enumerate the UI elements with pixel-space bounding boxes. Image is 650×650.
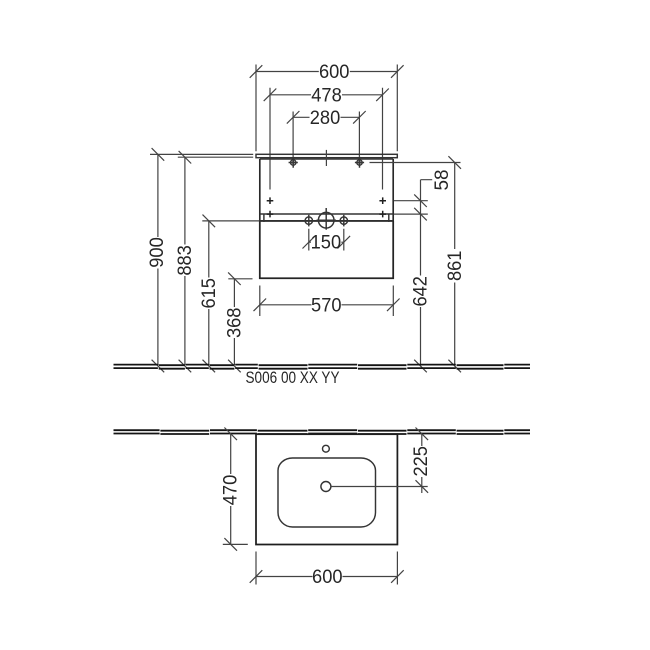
dimension 478: extension lines (270, 88, 383, 190)
extension line upper plus to 58 (394, 200, 428, 202)
svg-text:642: 642 (411, 276, 432, 307)
dimension 883: dimension line with ticks (179, 151, 192, 372)
dimension 570: extension lines (260, 286, 394, 317)
faucet hole (321, 482, 331, 492)
cabinet carcass top edge (260, 158, 393, 160)
washbasin top outline (256, 434, 397, 544)
svg-text:280: 280 (310, 108, 341, 129)
svg-text:150: 150 (311, 233, 342, 254)
svg-text:225: 225 (411, 446, 432, 477)
drawer rail end caps (264, 214, 389, 222)
dimension 280: dimension line with ticks (287, 111, 366, 124)
svg-text:600: 600 (312, 567, 343, 588)
siphon big circle (317, 208, 337, 230)
dimension 861: dimension line with ticks (448, 156, 461, 372)
drawer rail bottom line (260, 220, 393, 222)
drilling plus mark lower-right (379, 211, 386, 218)
cabinet drawer box (260, 221, 393, 278)
screw symbol right (355, 157, 364, 168)
svg-text:570: 570 (311, 295, 342, 316)
svg-text:615: 615 (199, 278, 220, 309)
dimension 58: leader and ticks (414, 180, 432, 221)
dimension 225: dimension line with ticks (416, 428, 429, 494)
cabinet center mark top (325, 150, 327, 166)
drawer rail top line (260, 213, 393, 215)
countertop panel (256, 154, 397, 157)
dimension 600 top: dimension line with ticks (250, 65, 404, 78)
dimension 150: dimension line with ticks (303, 236, 351, 249)
extension line panel top to 900 (150, 153, 253, 155)
extension line panel bottom to 883 (178, 156, 253, 158)
svg-text:S006 00 XX YY: S006 00 XX YY (246, 369, 340, 387)
dimension 570: dimension line with ticks (254, 299, 400, 312)
basin bowl (278, 458, 376, 527)
svg-text:470: 470 (221, 475, 242, 506)
dimension 600 bottom: dimension line with ticks (250, 570, 404, 583)
dimension 470: dimension line with ticks (224, 428, 237, 551)
drain small circle left (305, 215, 312, 227)
extension line screws to 861 (370, 162, 461, 164)
svg-text:478: 478 (311, 85, 342, 106)
dimension 478: dimension line with ticks (264, 89, 389, 102)
dimension 600 top: extension lines (256, 65, 397, 152)
svg-text:861: 861 (445, 251, 466, 282)
dimension 615: dimension line with ticks (203, 215, 216, 373)
extension line basin bottom to 470 (223, 543, 248, 545)
svg-text:900: 900 (147, 237, 168, 268)
svg-text:883: 883 (175, 245, 196, 276)
dimension 900: dimension line with ticks (152, 148, 165, 372)
svg-text:368: 368 (225, 308, 246, 339)
wall line (top view) (114, 430, 531, 434)
extension line cabinet bottom to 368 (228, 278, 252, 280)
dimension 600 bottom: extension lines (256, 552, 397, 585)
drain small circle right (340, 215, 347, 227)
dimension 150: extension lines (309, 229, 344, 251)
svg-text:58: 58 (432, 170, 453, 191)
extension line lower plus to 58 (394, 213, 428, 215)
screw symbol left (289, 157, 298, 168)
cabinet carcass side walls (260, 159, 393, 221)
faucet hole leader line (331, 486, 428, 488)
extension line rail to 615 (202, 220, 259, 222)
svg-text:600: 600 (319, 62, 350, 83)
dimension 280: extension lines (293, 112, 359, 157)
dimension 368: dimension line with ticks (228, 272, 241, 372)
dimension 642: dimension line with ticks (414, 201, 427, 373)
overflow hole (323, 445, 330, 452)
floor line (front view) (114, 365, 531, 369)
drilling plus mark upper-right (379, 197, 386, 204)
drilling plus mark upper-left (267, 197, 274, 204)
drilling plus mark lower-left (267, 211, 274, 218)
